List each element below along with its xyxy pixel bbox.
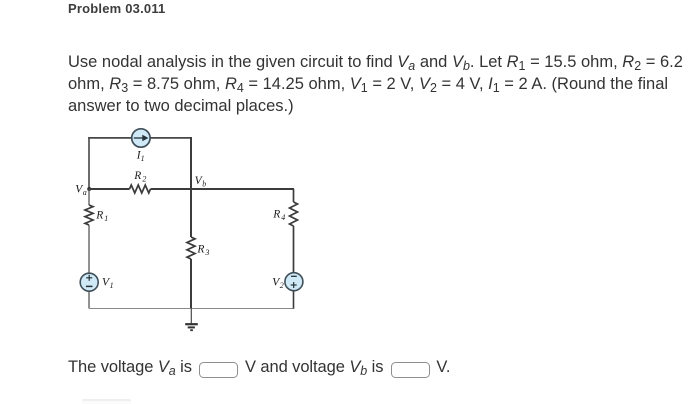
wire Vb to right rail xyxy=(191,188,294,190)
wire left rail Va to R1 xyxy=(88,189,90,205)
wire R1 to V1 xyxy=(88,225,90,273)
svg-text:b: b xyxy=(202,180,206,189)
wire left rail upper xyxy=(88,137,90,189)
svg-text:1: 1 xyxy=(110,281,114,290)
wire top rail xyxy=(88,137,192,139)
svg-text:R: R xyxy=(95,210,103,222)
wire V2 to bottom rail xyxy=(293,291,295,309)
label R4 xyxy=(272,209,285,222)
label R2 xyxy=(133,170,146,184)
current source I1 xyxy=(132,129,150,147)
svg-text:2: 2 xyxy=(280,281,284,290)
svg-text:a: a xyxy=(83,188,87,197)
label R1 xyxy=(95,210,108,223)
label Va xyxy=(75,184,87,197)
wire middle rail upper xyxy=(190,137,192,190)
svg-text:1: 1 xyxy=(141,154,145,163)
wire middle rail Vb to R3 xyxy=(190,189,192,237)
resistor R4 xyxy=(290,202,298,226)
label I1 xyxy=(136,150,145,164)
wire R4 to V2 xyxy=(293,226,295,273)
svg-text:R: R xyxy=(133,170,141,182)
svg-text:R: R xyxy=(272,209,280,221)
svg-text:4: 4 xyxy=(281,213,285,222)
node Va dot xyxy=(87,187,91,191)
label V2 xyxy=(272,277,284,290)
wire right rail to R4 xyxy=(293,189,295,202)
wire R3 to bottom rail xyxy=(190,259,192,308)
wire Va to R2 xyxy=(89,188,130,190)
resistor R2 xyxy=(130,185,151,193)
label R3 xyxy=(196,244,209,257)
wire R2 to Vb xyxy=(151,188,192,190)
resistor R1 xyxy=(85,205,93,225)
voltage source V1 xyxy=(80,273,98,291)
label V1 xyxy=(102,277,114,290)
ground xyxy=(185,308,198,330)
wire V1 to bottom rail xyxy=(88,291,90,308)
wire bottom rail xyxy=(89,308,294,310)
svg-text:2: 2 xyxy=(142,175,146,184)
voltage source V2 xyxy=(285,273,303,291)
label Vb xyxy=(195,175,207,189)
resistor R3 xyxy=(187,237,195,259)
svg-text:R: R xyxy=(196,244,204,256)
svg-text:3: 3 xyxy=(204,248,209,257)
svg-text:1: 1 xyxy=(104,214,108,223)
